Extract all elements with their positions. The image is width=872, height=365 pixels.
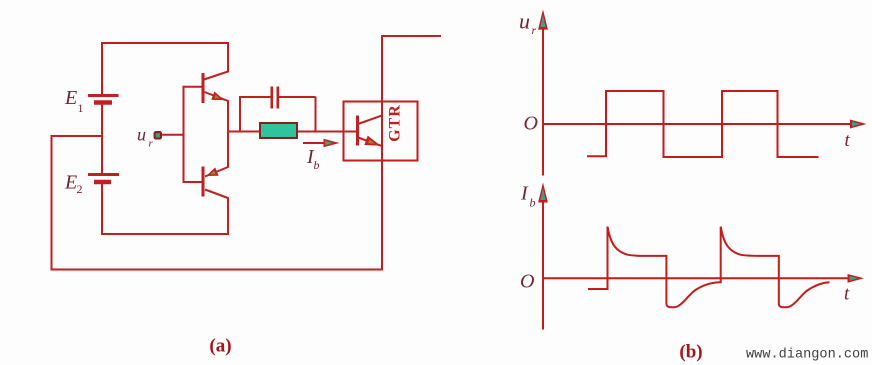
svg-text:2: 2 xyxy=(77,182,83,196)
svg-text:O: O xyxy=(520,270,534,292)
svg-text:E: E xyxy=(64,87,77,109)
svg-text:I: I xyxy=(520,183,529,205)
svg-text:b: b xyxy=(530,196,536,210)
svg-text:u: u xyxy=(137,125,146,145)
svg-text:GTR: GTR xyxy=(387,104,404,142)
svg-text:b: b xyxy=(314,158,320,172)
svg-text:(b): (b) xyxy=(679,342,702,363)
svg-text:E: E xyxy=(64,172,77,194)
svg-text:1: 1 xyxy=(78,101,84,115)
svg-text:t: t xyxy=(845,130,851,151)
svg-text:(a): (a) xyxy=(209,336,231,357)
svg-text:r: r xyxy=(532,23,537,37)
svg-text:u: u xyxy=(519,8,530,33)
svg-text:O: O xyxy=(524,112,538,134)
svg-text:t: t xyxy=(844,284,850,305)
svg-text:r: r xyxy=(149,137,154,149)
svg-text:www.diangon.com: www.diangon.com xyxy=(746,348,868,363)
